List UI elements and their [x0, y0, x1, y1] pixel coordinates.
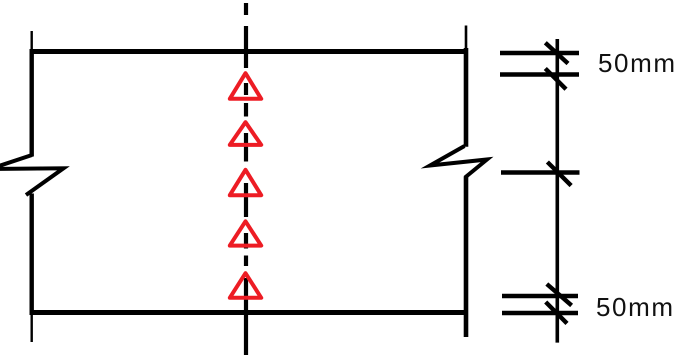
- svg-text:50mm: 50mm: [598, 48, 677, 78]
- svg-text:50mm: 50mm: [596, 292, 675, 322]
